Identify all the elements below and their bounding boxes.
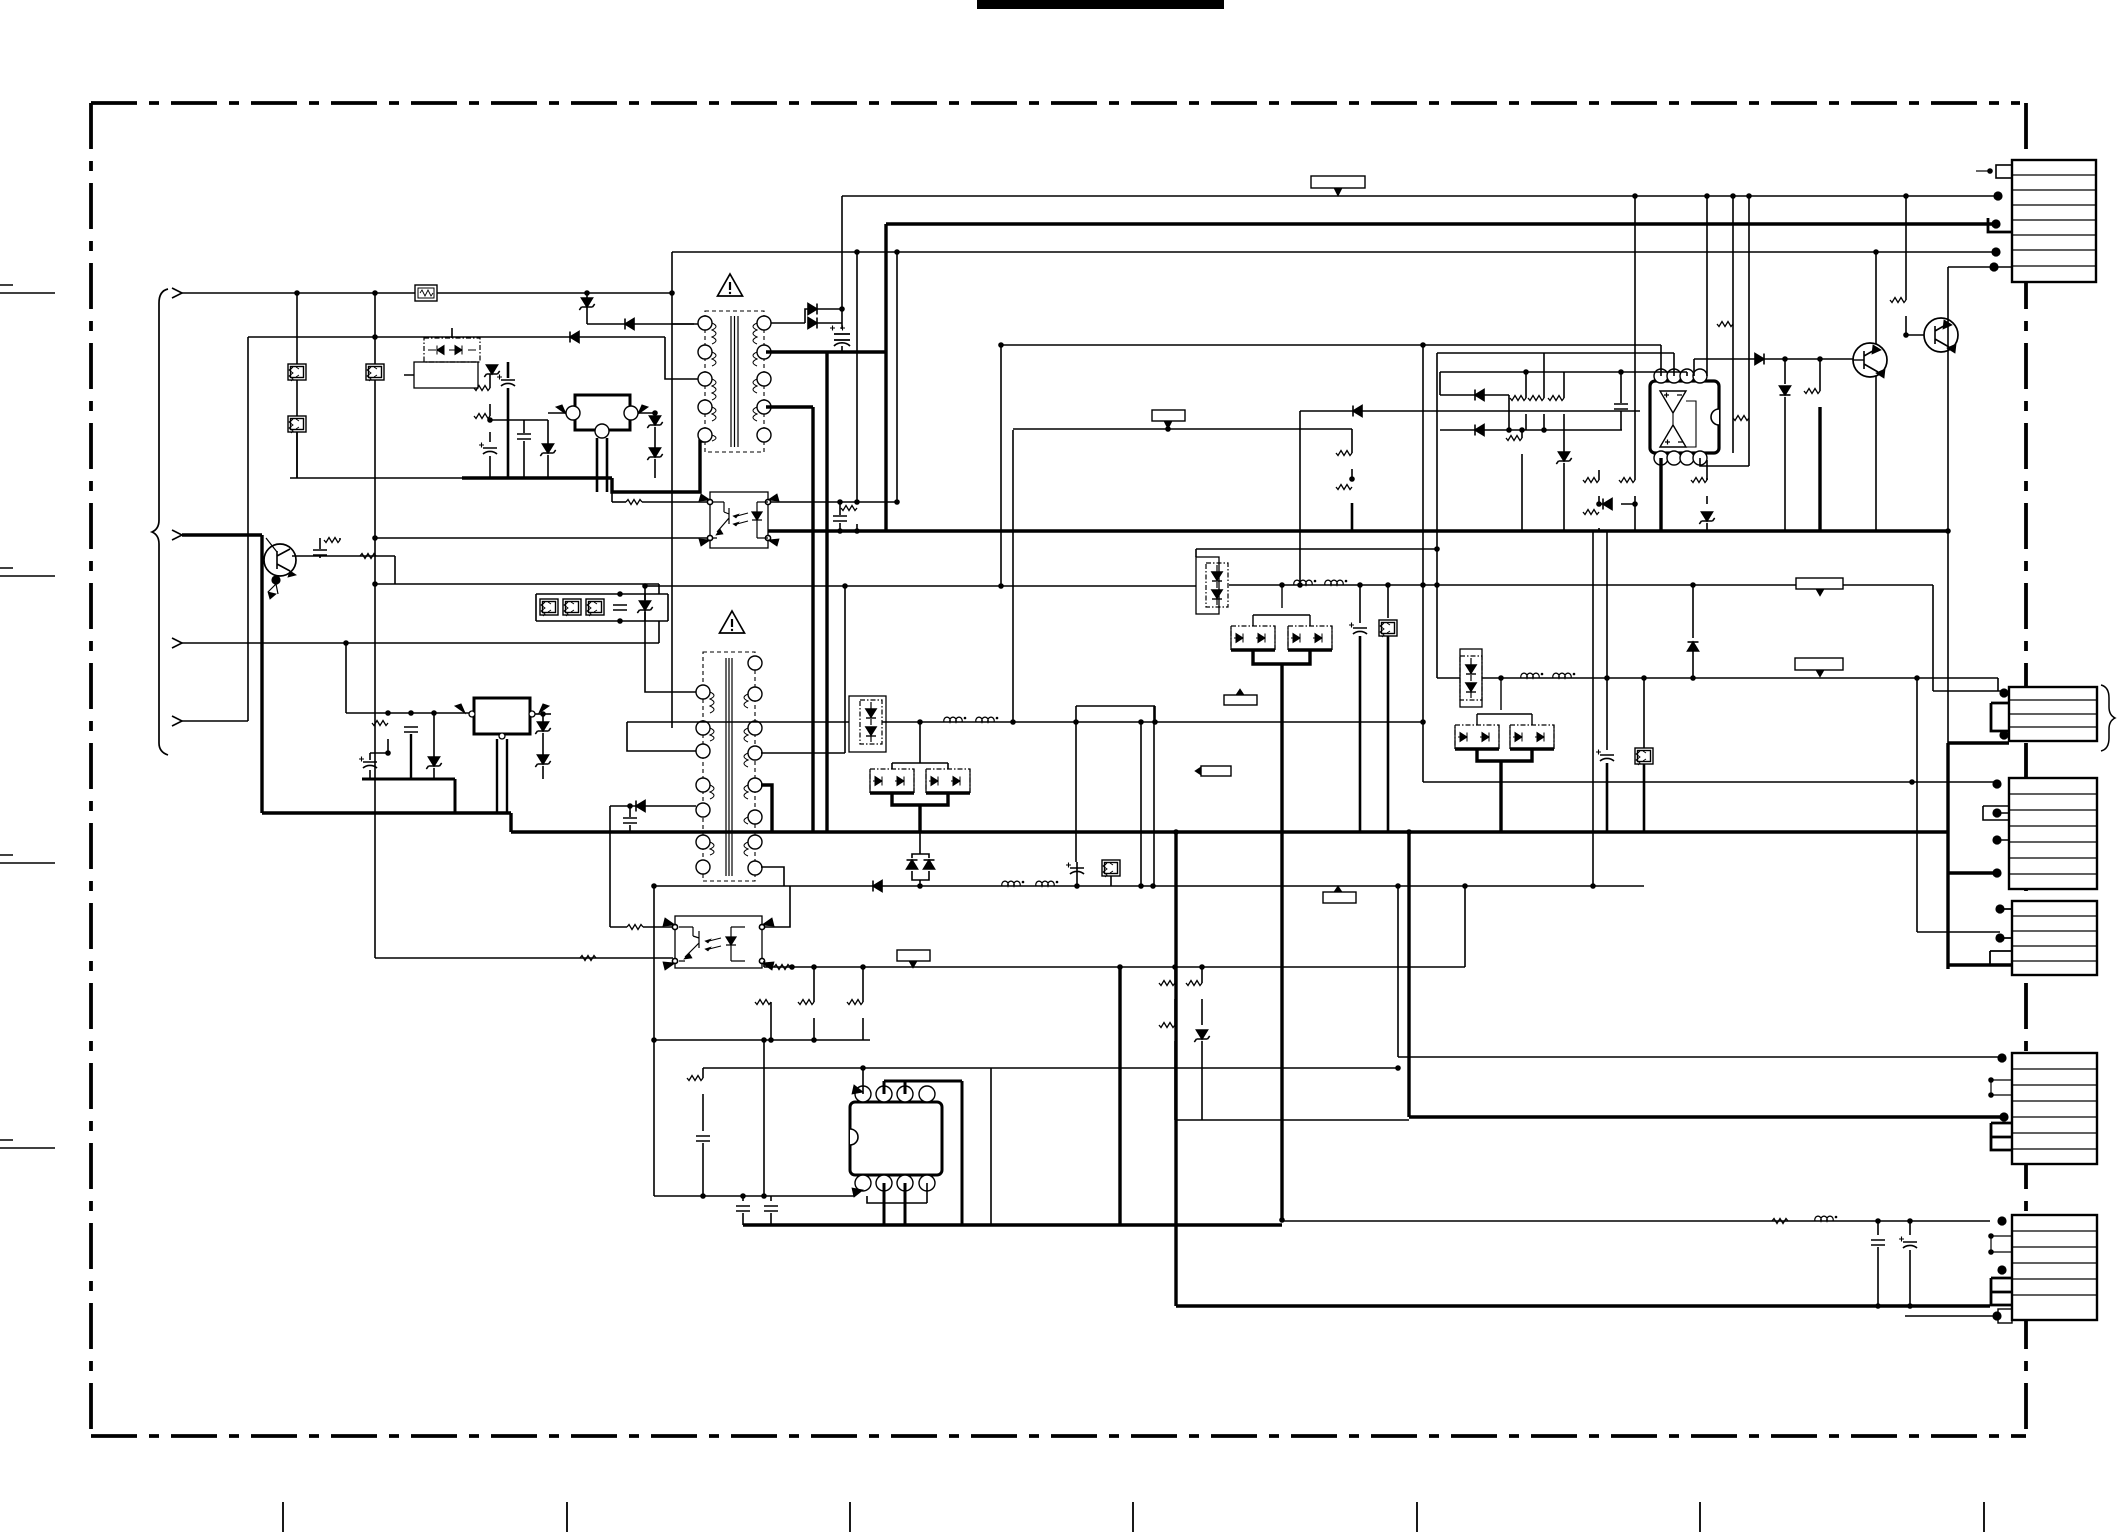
resistor R907	[612, 501, 626, 503]
wire y1196	[654, 1195, 855, 1197]
cap C907	[613, 605, 627, 610]
zener D922	[535, 755, 550, 767]
T901 pins left	[698, 316, 712, 330]
resistor R924	[372, 721, 388, 726]
wire x1398 CN5 feed	[1398, 886, 2002, 1057]
transformer T902 dashed body	[703, 652, 755, 881]
zener D908	[647, 448, 662, 460]
regulator IC903	[474, 698, 530, 734]
wire AC line y293	[182, 292, 672, 294]
comparator IC902	[1650, 369, 1719, 465]
wire y224 thick rail	[886, 222, 1996, 225]
thick to CN4 y965	[1948, 963, 2012, 966]
IC904 vcc thick rail	[884, 1081, 962, 1225]
boxed resistor R923	[586, 599, 604, 616]
diode D918	[1784, 359, 1786, 384]
inductor L902	[1002, 881, 1025, 886]
wire x1917 to CN4	[1917, 678, 2000, 932]
cap C902 polarized	[479, 443, 497, 455]
MOSFET pack Q905	[926, 769, 970, 793]
MOSFET pack Q909	[1510, 725, 1554, 749]
wire x790 opto2 to y886	[764, 886, 790, 927]
resistor chain R933	[1174, 967, 1176, 983]
T902 windings	[710, 692, 714, 855]
thick jog to T1 pin	[612, 441, 704, 492]
wire y252 rail	[672, 251, 1996, 253]
input brace	[152, 289, 168, 755]
input arrow AC1	[172, 288, 182, 298]
wire x1948	[1947, 267, 1949, 743]
fusible resistor R901	[415, 285, 437, 301]
inductor L905	[1815, 1216, 1838, 1221]
resistor R906	[474, 414, 490, 419]
wire x857	[856, 252, 858, 502]
wire x1013	[1012, 430, 1014, 722]
wire x1423	[1422, 345, 1424, 782]
wire x672 vertical	[671, 252, 673, 728]
wire AC y643	[182, 642, 659, 644]
cap C916	[770, 1196, 772, 1201]
IC904 gnd pins thick	[884, 1183, 905, 1225]
wire y430 + diode D913	[1440, 429, 1622, 431]
T901 core	[731, 316, 738, 447]
label LB7	[897, 950, 930, 961]
Q903 bias parts	[292, 555, 395, 557]
diode D929	[1692, 585, 1694, 638]
diode D910	[808, 318, 817, 329]
wire x1593	[1592, 531, 1594, 886]
zener D905	[484, 365, 499, 377]
label LB2	[1152, 410, 1185, 421]
wire y337	[248, 336, 665, 338]
dual diode pack D925	[849, 696, 886, 752]
transistor Q903	[264, 538, 296, 577]
inductor L903	[1294, 580, 1317, 585]
wire opto1 right y502	[770, 501, 896, 503]
IC903 gnd leads	[497, 739, 507, 813]
connector CN3	[1983, 778, 2097, 889]
wire vertical x262 thick to bus	[260, 535, 263, 813]
T902 pins left	[696, 685, 710, 699]
T902 bottom step to y886	[761, 867, 784, 886]
resistor R920	[360, 554, 376, 559]
cap C915	[742, 1196, 744, 1201]
RC network rails	[536, 594, 668, 621]
T902 core	[726, 658, 732, 876]
wire y1221 CN6 feed	[1282, 1220, 1990, 1222]
wire x991	[990, 1068, 992, 1225]
dual diode pack D928	[1460, 649, 1482, 707]
cap C909 polarized	[359, 757, 377, 769]
zener D919	[637, 601, 652, 613]
left margin tick y568	[0, 568, 55, 576]
resistor R911	[1525, 372, 1527, 398]
wire x1465	[1464, 886, 1466, 967]
CN2 brace	[2101, 685, 2115, 751]
wire x1001	[1000, 345, 1002, 586]
input arrow AC4	[172, 716, 182, 726]
diode D903	[625, 319, 634, 330]
left margin tick y855	[0, 855, 55, 863]
inductor L904	[1521, 673, 1544, 678]
wire CN1 pin4 y267	[1948, 266, 1994, 268]
IC feed verticals	[1635, 196, 1749, 480]
cap C911 electrolytic	[1076, 862, 1078, 886]
cap C917	[1877, 1221, 1879, 1235]
wire thick x827	[825, 352, 828, 832]
resistor R908	[841, 506, 857, 511]
T902 aux wire y753	[761, 586, 845, 753]
IC904 pin4 wires	[867, 1183, 927, 1203]
wire y678	[1482, 677, 1998, 679]
common source thick	[892, 793, 948, 805]
wire y722	[627, 721, 1423, 723]
dual diode pack D927	[1196, 557, 1219, 614]
cluster2 common thick	[1253, 650, 1310, 664]
resistor R931	[770, 1002, 772, 1040]
thick drop x1409 to CN5	[1407, 832, 1410, 1117]
IC904 8pin	[850, 1085, 942, 1197]
cap C918 polarized	[1909, 1221, 1911, 1235]
wire y886	[654, 885, 1644, 887]
wire x654	[653, 886, 655, 1196]
T901 pin stubs	[665, 324, 698, 379]
snubber loop	[1076, 706, 1155, 862]
cap C904 polarized double	[830, 326, 850, 347]
snubber cap C910	[623, 818, 637, 823]
cap C912 electrolytic	[1359, 585, 1361, 623]
dual diode pack D904	[424, 333, 480, 362]
resistor R919	[1905, 196, 1907, 300]
wire y1040	[654, 1039, 870, 1041]
wire y372	[1440, 372, 1687, 395]
warning triangle W2	[720, 611, 745, 633]
wire x1141	[1140, 722, 1142, 886]
MOSFET pack Q907	[1288, 626, 1332, 650]
MOSFET pack Q904	[870, 769, 914, 793]
T902 primary wires	[645, 586, 696, 692]
zener D906	[540, 444, 555, 456]
wire opto2 lower left y958	[375, 957, 673, 959]
wire loop y549	[1196, 548, 1437, 550]
wire y585	[1229, 584, 1933, 586]
label LB5	[1795, 658, 1843, 670]
diode D915	[1603, 499, 1612, 510]
IC904 pin1 wire	[862, 1068, 864, 1094]
boxed resistor R927	[1387, 585, 1389, 618]
IC gnd thick x1661	[1659, 458, 1662, 531]
thick bus to CN2 y743	[1948, 741, 2009, 744]
wire thick x886	[884, 224, 887, 531]
cap C901	[497, 375, 515, 387]
zener D930	[1194, 1030, 1209, 1042]
zener D916	[1699, 512, 1714, 524]
resistor R912	[1521, 430, 1523, 438]
wire y196 top rail	[842, 195, 1998, 197]
zener D920	[426, 757, 441, 769]
wire x764	[763, 1040, 765, 1196]
boxed resistor R928	[1643, 678, 1645, 748]
opto coupler PC902	[663, 916, 774, 970]
diode D924	[873, 881, 882, 892]
resistor chain R934	[1201, 967, 1203, 983]
resistor R932	[702, 1068, 704, 1078]
MOSFET pack Q908	[1455, 725, 1499, 749]
wire opto1 left low y538	[375, 537, 708, 539]
connector CN6	[1905, 1215, 2097, 1323]
T901 secondary windings	[753, 323, 757, 421]
main bus A thick y536	[768, 529, 1948, 532]
connector CN4	[1990, 901, 2097, 975]
resistor R918	[1819, 359, 1821, 391]
boxed resistor R922	[563, 599, 581, 616]
transformer T901 dashed body	[705, 311, 764, 452]
wire y678 to CN2	[1997, 678, 1999, 691]
boxed resistor R902	[288, 364, 306, 381]
label LB5b	[1224, 695, 1257, 705]
cap C913 electrolytic	[1606, 531, 1608, 678]
wire AC y721	[182, 720, 248, 722]
input arrow AC3	[172, 638, 182, 648]
resistor R935	[1772, 1219, 1788, 1224]
cap C914	[702, 1094, 704, 1131]
boxed resistor R921	[540, 599, 558, 616]
resistor R905	[489, 374, 491, 388]
connector CN2	[1991, 685, 2115, 751]
wire opto2 out y967	[764, 961, 1465, 967]
cap C906	[1614, 404, 1628, 409]
thick riser x1120	[1118, 967, 1121, 1225]
resistor R915	[1583, 510, 1599, 515]
resistor R914	[1583, 478, 1599, 483]
wire y1068	[703, 1067, 1398, 1069]
wire y429	[1013, 429, 1352, 453]
left margin tick y285	[0, 285, 55, 293]
connector CN5	[1988, 1053, 2097, 1164]
wire x346	[345, 643, 347, 713]
T901 pins right	[757, 316, 771, 330]
wire x395 jog	[394, 556, 396, 584]
left margin tick y1140	[0, 1140, 55, 1148]
wire y324	[587, 323, 694, 325]
wire x1933 to CN2	[1933, 585, 2002, 691]
thick drop x1176 to CN6	[1174, 832, 1177, 1306]
diode D909	[808, 304, 817, 315]
inductor L901	[944, 717, 967, 722]
transistor Q901	[1853, 343, 1887, 378]
diode pair D926	[907, 860, 918, 869]
boxed resistor R903	[366, 364, 384, 381]
bottom fold ticks	[283, 1502, 1984, 1532]
input arrow AC2	[172, 530, 182, 540]
thick node y478	[462, 476, 612, 479]
cluster3 common thick	[1477, 749, 1532, 761]
T902 pins right	[748, 656, 762, 670]
wire thick bus y813	[262, 811, 511, 814]
zener D921	[535, 722, 550, 734]
thick to CN3 y873	[1948, 871, 1997, 874]
thick drop x1819	[1818, 407, 1821, 531]
resistor R917	[1691, 478, 1707, 483]
wire vertical x248	[247, 337, 249, 721]
wire y584	[375, 583, 659, 585]
zener D907	[647, 416, 662, 428]
zener D914	[1556, 452, 1571, 464]
thick node y779	[362, 778, 455, 781]
wire y713 regulator input	[346, 712, 472, 714]
wire y1120	[1175, 1119, 1409, 1121]
IC901 regulator	[575, 395, 630, 430]
title underline bar	[977, 0, 1224, 9]
MOSFET pack Q906	[1231, 626, 1275, 650]
wire thick x813	[766, 405, 813, 408]
resistor R930	[862, 967, 864, 1002]
wire y353	[1437, 353, 1674, 376]
label LB3	[1796, 578, 1843, 589]
wire x897	[896, 252, 898, 502]
main bus B thick y832	[511, 830, 1948, 833]
diode D901	[570, 332, 579, 343]
thick drop x1282	[1280, 664, 1283, 1220]
label LB6	[1323, 892, 1356, 903]
resistor R910	[1336, 485, 1352, 490]
resistor R929	[813, 967, 815, 1002]
transistor Q902	[1906, 318, 1958, 353]
wire x610	[609, 806, 611, 927]
board outline (dash-dot border)	[91, 103, 2026, 1436]
resistor R913	[1548, 396, 1564, 401]
wire x1300	[1299, 411, 1301, 585]
boxed resistor R926	[1102, 860, 1120, 877]
wire vertical x297	[296, 293, 298, 478]
wire vertical x375	[374, 293, 376, 958]
bus thick y1225	[743, 1223, 1282, 1226]
cap C905	[833, 516, 847, 521]
wire thick AC return y535	[182, 533, 262, 536]
boxed resistor R904	[288, 416, 306, 433]
label LB1	[1311, 176, 1365, 188]
resistor R911b	[1543, 353, 1545, 430]
wire y411 + diode D911	[1300, 410, 1640, 412]
T901 secondary rectifier wires	[771, 309, 810, 323]
thick riser x511	[509, 813, 512, 832]
label LB5c	[1201, 766, 1231, 776]
opto coupler PC901	[699, 492, 779, 548]
resistor R925	[610, 926, 627, 928]
wire y395 + diode D912	[1440, 395, 1509, 430]
resistor R916	[1619, 478, 1635, 483]
wire standby B+ thick y352	[766, 350, 886, 353]
snubber diode D923	[610, 805, 696, 807]
wire y782	[1423, 781, 1997, 783]
T901 primary windings	[712, 323, 716, 441]
resistor R909	[1336, 451, 1352, 456]
zener D902	[579, 298, 594, 310]
wire x1154	[1153, 706, 1155, 886]
wire y345	[1001, 345, 1661, 376]
connector CN1	[1976, 160, 2096, 282]
snubber box outline	[414, 362, 478, 388]
T902 secondary elbow to bus	[761, 785, 772, 832]
wire x1437	[1436, 353, 1438, 678]
IC901 gnd double lead	[597, 438, 607, 492]
wire x659 network to y643	[658, 584, 660, 643]
IC out wire y359 + diode D917	[1694, 358, 1859, 360]
warning triangle W1	[718, 274, 743, 296]
cap C903	[517, 434, 531, 439]
cap C908	[404, 727, 418, 732]
